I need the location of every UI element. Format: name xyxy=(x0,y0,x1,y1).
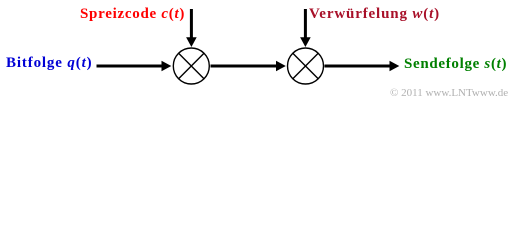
label: Spreizcode c(t) xyxy=(80,7,185,22)
multiplier U2 (circle with X) xyxy=(288,48,324,84)
wire: Spreizcode down into multiplier 1 xyxy=(190,9,193,38)
label: Bitfolge q(t) xyxy=(6,56,93,71)
wire/diagram svg xyxy=(0,0,516,104)
wire: multiplier 1 to multiplier 2 xyxy=(211,65,277,68)
label: Verwuerfelung w(t) xyxy=(309,7,440,22)
arrowhead down into multiplier 2 xyxy=(300,37,311,47)
copyright xyxy=(390,88,508,99)
arrowhead into multiplier 2 xyxy=(276,61,286,72)
arrowhead to Sendefolge xyxy=(390,61,400,72)
wire: Verwuerfelung down into multiplier 2 xyxy=(304,9,307,38)
wire: multiplier 2 to output xyxy=(325,65,390,68)
multiplier U1 (circle with X) xyxy=(173,48,209,84)
wire: Bitfolge to multiplier 1 xyxy=(97,65,163,68)
label: Sendefolge s(t) xyxy=(404,57,507,72)
arrowhead into multiplier 1 xyxy=(162,61,172,72)
arrowhead down into multiplier 1 xyxy=(186,37,197,47)
